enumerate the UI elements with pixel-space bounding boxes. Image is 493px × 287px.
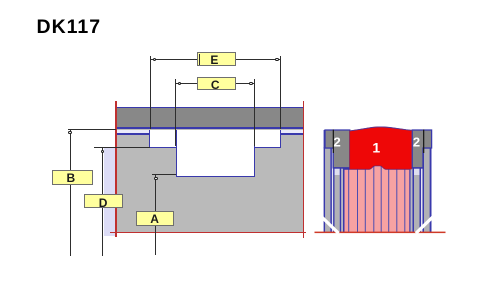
left blue vline 3 — [333, 168, 334, 232]
right blue vline 3 — [420, 168, 422, 232]
left inner gray strip — [335, 175, 340, 232]
label box D — [84, 194, 123, 208]
right outer gray strip — [424, 148, 430, 232]
dimension A vline — [155, 174, 156, 255]
right outer blue edge — [430, 130, 432, 232]
red rubber block 1 — [350, 127, 412, 169]
arrow dot D — [101, 150, 104, 153]
left blue vline 2 — [330, 148, 332, 232]
left blue vline 5 — [343, 168, 345, 232]
dimension E extension left — [150, 56, 151, 130]
body gray — [116, 129, 304, 232]
pink divider lines — [348, 169, 349, 232]
right blue vline 5 — [409, 168, 411, 232]
arrow dot A — [154, 177, 157, 180]
left channel light sliver — [332, 148, 333, 232]
top band with blue borders — [116, 107, 304, 130]
right blue vline 2 — [423, 148, 425, 232]
dimension E line — [150, 59, 281, 60]
right blue vline 4 — [413, 168, 415, 232]
arrow dot C right — [249, 82, 252, 85]
white diagonal left — [321, 216, 339, 233]
black line on right block — [423, 130, 424, 154]
blue hline under left block outer — [324, 147, 335, 149]
arrow dot C left — [178, 82, 181, 85]
left outer blue edge — [324, 130, 326, 232]
svg-text:1: 1 — [372, 140, 380, 156]
right inner gray strip — [414, 175, 420, 232]
pink elastomer mass — [345, 166, 410, 233]
arrow dot E left — [153, 58, 156, 61]
step cutout white — [149, 130, 281, 149]
metal block 2 left — [325, 130, 350, 168]
svg-text:2: 2 — [333, 135, 340, 150]
pink top blue edge — [345, 166, 410, 170]
left light cap under block — [335, 168, 340, 175]
blue hline under right block inner — [409, 167, 423, 169]
title DK117 — [37, 16, 102, 39]
left outer gray strip — [325, 148, 330, 232]
deep cutout white — [176, 130, 256, 178]
dimension E extension right — [280, 56, 281, 130]
arrow dot B — [68, 131, 71, 134]
left blue vline 4 — [340, 168, 342, 232]
left groove blue line — [116, 133, 150, 135]
right grayish sliver — [411, 168, 413, 232]
dimension D vline — [102, 148, 103, 256]
dimension D extension — [94, 147, 150, 148]
red baseline — [315, 232, 446, 234]
left gray sliver — [341, 168, 343, 232]
dimension B extension — [68, 129, 117, 130]
dimension C line — [176, 83, 255, 84]
dimension C extension right — [254, 79, 255, 146]
red hline bottom — [110, 232, 306, 233]
arrow dot E right — [275, 58, 278, 61]
tick in E box — [199, 54, 200, 65]
label box A — [136, 211, 174, 226]
dimension A extension — [152, 174, 176, 175]
dimension B vline — [70, 129, 71, 256]
right groove blue line — [281, 133, 304, 135]
white diagonal right — [416, 216, 434, 233]
dimension C extension left — [175, 79, 176, 146]
red vline left — [115, 101, 116, 238]
label box E — [197, 52, 236, 66]
blue hline under left block inner — [333, 167, 346, 169]
red vline right — [303, 101, 304, 239]
label box B — [52, 170, 93, 185]
blue hline under right block outer — [423, 147, 432, 149]
black line on left block — [333, 130, 334, 154]
right groove lavender — [281, 130, 304, 134]
metal block 2 right — [412, 130, 431, 168]
dark top edge of red — [350, 127, 412, 131]
lavender vertical strip — [104, 148, 115, 236]
right light cap under block — [414, 168, 420, 175]
left groove lavender — [116, 130, 150, 134]
svg-text:2: 2 — [413, 135, 420, 150]
label box C — [197, 77, 236, 90]
right channel light sliver — [421, 148, 423, 232]
